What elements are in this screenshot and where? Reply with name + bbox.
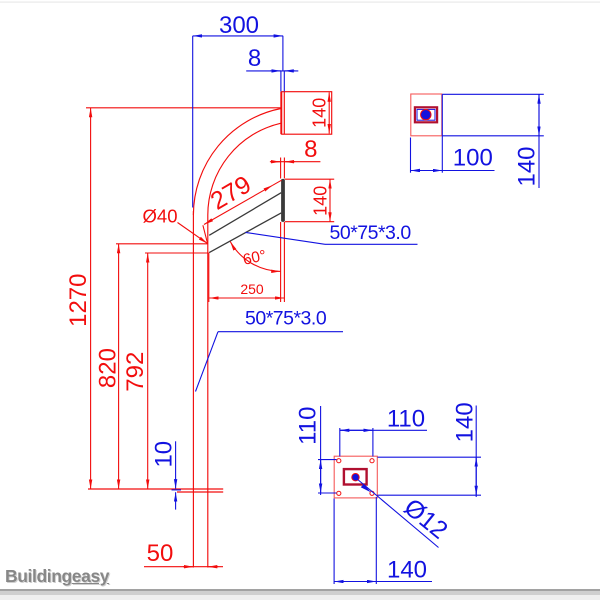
dim 140 right line (475, 406, 477, 498)
dim 110 top line (340, 429, 427, 431)
extensions below lower plate (280, 222, 282, 302)
dim 279 line (204, 185, 273, 224)
svg-text:8: 8 (248, 45, 261, 72)
detail bottom extension (442, 135, 544, 137)
svg-text:140: 140 (514, 146, 541, 186)
dim 110 left line (320, 406, 322, 495)
bolt hole BR (370, 491, 374, 495)
angle 60 arc (230, 242, 281, 272)
top sign box (282, 92, 332, 135)
svg-text:279: 279 (206, 170, 256, 215)
svg-text:50*75*3.0: 50*75*3.0 (330, 222, 412, 244)
svg-text:50*75*3.0: 50*75*3.0 (245, 308, 327, 330)
dim 820 line (118, 244, 120, 489)
svg-text:300: 300 (219, 12, 259, 39)
pole left edge (192, 211, 194, 568)
pole right edge (207, 215, 209, 568)
dim 140 lower ext (285, 178, 334, 180)
dim 140 detail line (538, 94, 540, 188)
outer bend arc (193, 109, 281, 216)
dim 250 left extension (208, 253, 210, 302)
RED DIMENSIONS (86, 92, 334, 566)
BOTTOM RIGHT DETAIL (318, 406, 481, 585)
top plate thick edge (280, 92, 282, 135)
svg-text:Ø40: Ø40 (143, 206, 178, 227)
dim 50 line (144, 566, 223, 568)
dim 140 bottom extensions (333, 499, 335, 585)
bar upper edge (209, 193, 281, 236)
pole dot top view (352, 474, 359, 481)
detail top extension (442, 93, 544, 95)
tube section top view (344, 469, 367, 484)
svg-text:250: 250 (240, 281, 264, 297)
dim 792 extension (145, 252, 208, 254)
dim 100 line (411, 170, 495, 172)
svg-text:820: 820 (95, 348, 122, 388)
dim 140 upper (328, 92, 330, 133)
dim 1270 extension top (86, 107, 281, 109)
dim 10 lower (175, 492, 177, 509)
base plate outline top view (334, 456, 377, 498)
svg-text:140: 140 (311, 186, 331, 216)
svg-text:1270: 1270 (65, 274, 92, 327)
bolt hole TR (370, 459, 374, 463)
svg-text:110: 110 (387, 406, 425, 433)
leader 50*75*3.0 lower (196, 332, 219, 392)
dim 8 top of lower plate (273, 161, 321, 163)
dim 792 line (147, 253, 149, 489)
detail plate outline (411, 94, 442, 136)
dim 8 top extensions (280, 71, 282, 92)
BLUE DIMENSIONS (172, 36, 418, 510)
dim 140 bottom line (334, 581, 432, 583)
leader O40 (178, 223, 208, 244)
dim 300 line (193, 35, 283, 37)
svg-text:140: 140 (310, 98, 330, 128)
bolt hole BL (337, 491, 341, 495)
svg-text:140: 140 (452, 402, 479, 442)
dim 820 extension (116, 243, 208, 245)
inner bend arc (208, 123, 281, 215)
TOP RIGHT DETAIL (411, 94, 544, 188)
dim 110 top extensions (339, 428, 341, 457)
watermark Buildingeasy (5, 566, 109, 587)
dim 8 top line (246, 70, 298, 72)
svg-text:8: 8 (304, 136, 317, 163)
svg-text:60°: 60° (241, 247, 267, 269)
dim 10 upper (175, 441, 177, 488)
detail tube section (415, 107, 437, 122)
dim 140 right extensions (378, 456, 482, 458)
dim 140 lower line (329, 179, 331, 222)
svg-text:140: 140 (387, 557, 427, 584)
svg-text:50: 50 (147, 540, 174, 567)
svg-text:100: 100 (453, 145, 493, 172)
detail right vertical extension (441, 94, 443, 172)
dim 279 extension (203, 225, 208, 243)
detail bolt dot (421, 110, 431, 120)
dim 110 left extensions (318, 459, 337, 461)
svg-text:110: 110 (295, 407, 322, 445)
svg-text:792: 792 (122, 352, 149, 392)
dim 100 left extension (410, 138, 412, 173)
leader O12 (357, 479, 439, 548)
dim 250 line (209, 297, 284, 299)
MAIN STRUCTURE (88, 92, 332, 568)
leader 50*75*3.0 upper (246, 232, 326, 244)
dim 10 tick (172, 489, 182, 491)
lower plate (black, side view) (281, 179, 285, 222)
svg-text:10: 10 (150, 441, 177, 468)
base plate side view (88, 488, 223, 490)
bar lower edge (209, 213, 281, 253)
bottom gray bar (0, 589, 600, 591)
top faint border (0, 2, 600, 3)
bolt hole TL (337, 459, 341, 463)
dim 300 right extension (282, 36, 284, 71)
dim 300 left extension (192, 36, 194, 208)
dim 1270 line (90, 108, 92, 489)
